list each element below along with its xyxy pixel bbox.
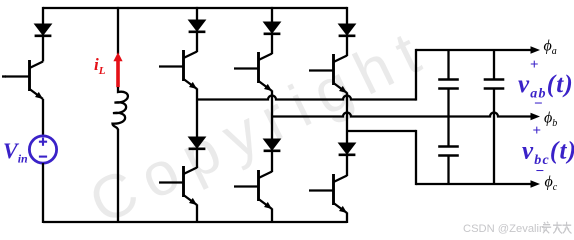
diode D1 top leg1 <box>189 20 206 32</box>
wire top rail <box>43 7 347 9</box>
wire leg1 midsection <box>196 89 198 138</box>
capacitor C1 lead bottom <box>447 89 449 117</box>
wire Q6 emitter to bottom rail <box>346 213 348 224</box>
output arrow phi_c <box>531 180 541 187</box>
label vbc(t) <box>522 138 574 169</box>
label phi_b <box>544 110 557 130</box>
watermark CJK glyph ai <box>542 222 551 234</box>
capacitor C3 (b-c) lead top <box>447 117 449 147</box>
wire phase c bus <box>416 183 532 185</box>
svg-text:−: − <box>536 164 545 180</box>
wire Q5 emitter to bottom rail <box>271 209 273 224</box>
label iL <box>94 55 106 77</box>
wire phase a bus <box>416 49 532 51</box>
transistor Q5 bottom leg2 <box>234 170 272 209</box>
transistor Q4 bottom leg1 <box>159 166 197 205</box>
inductor L coil <box>113 87 128 130</box>
wire leg2 midsection <box>271 91 273 140</box>
capacitor C1 (a-b) lead top <box>447 50 449 80</box>
wire D6 to Q6 <box>346 156 348 177</box>
wire inductor to bottom rail <box>117 129 119 223</box>
diode D0 input <box>35 24 52 36</box>
label vab(t) <box>518 71 574 102</box>
diode D3 top leg3 <box>339 24 356 36</box>
capacitor C3 plates <box>438 147 459 156</box>
wire phase b bus with hops <box>272 113 532 117</box>
wire D5 to Q5 <box>271 152 273 173</box>
wire leg2 top <box>271 7 273 22</box>
label minus vab <box>534 96 543 112</box>
diode D4 bottom leg1 <box>189 137 206 149</box>
wire bottom rail <box>43 221 347 223</box>
wire leg3 top <box>346 7 348 24</box>
output arrow phi_a <box>531 46 541 53</box>
capacitor C1 plates <box>438 80 459 89</box>
wire input branch upper <box>42 7 44 24</box>
wire D3 to Q3 <box>346 37 348 57</box>
transistor Q6 bottom leg3 <box>309 174 347 213</box>
transistor Q2 top leg2 <box>234 52 272 91</box>
capacitor C2 plates <box>484 80 505 89</box>
capacitor C2 lead bottom <box>493 89 495 185</box>
wire Q0 emitter to Vin <box>42 99 44 136</box>
svg-text:+: + <box>530 57 539 73</box>
wire inductor branch upper <box>117 7 119 54</box>
wire Vin to bottom rail <box>42 163 44 223</box>
svg-text:CSDN @Zevalin: CSDN @Zevalin <box>463 223 545 235</box>
watermark Copyright <box>79 14 441 237</box>
wire leg3 midsection <box>346 93 348 144</box>
current arrow iL <box>113 52 122 87</box>
label plus vbc <box>533 123 542 139</box>
diode D2 top leg2 <box>264 22 281 34</box>
output arrow phi_b <box>531 113 541 120</box>
label plus vab <box>530 57 539 73</box>
label phi_a <box>544 38 557 58</box>
wire phase a riser <box>415 49 417 101</box>
watermark CJK glyph hui 2 <box>562 222 571 234</box>
wire phase a with hops <box>197 96 416 100</box>
wire D0 to Q0 <box>42 37 44 62</box>
watermark CJK glyph hui 1 <box>553 222 562 234</box>
label Vin <box>3 138 28 166</box>
diode D5 bottom leg2 <box>264 139 281 151</box>
wire D4 to Q4 <box>196 150 198 169</box>
wire phase c riser <box>415 130 417 185</box>
diode D6 bottom leg3 <box>339 143 356 155</box>
wire phase c <box>347 130 416 132</box>
label minus vbc <box>536 164 545 180</box>
svg-text:−: − <box>534 96 543 112</box>
wire leg1 top <box>196 7 198 20</box>
source Vin circle <box>29 136 56 163</box>
wire Q4 emitter to bottom rail <box>196 205 198 224</box>
transistor Q0 input <box>2 60 43 99</box>
capacitor C3 lead bottom <box>447 156 449 185</box>
watermark CSDN text <box>463 223 545 235</box>
capacitor C2 (a-c) lead top <box>493 50 495 80</box>
wire D2 to Q2 <box>271 35 273 55</box>
label phi_c <box>545 174 558 194</box>
wire D1 to Q1 <box>196 33 198 53</box>
transistor Q3 top leg3 <box>309 54 347 93</box>
svg-text:vab(t): vab(t) <box>518 71 574 102</box>
transistor Q1 top leg1 <box>159 50 197 89</box>
